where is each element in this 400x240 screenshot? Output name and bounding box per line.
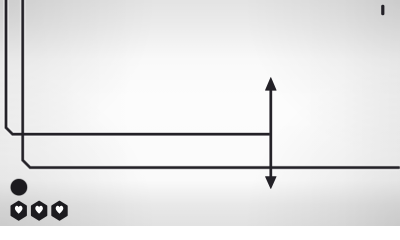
heart 2 bbox=[35, 206, 43, 214]
arrowhead up bbox=[266, 78, 277, 91]
arrow shaft vertical bbox=[270, 86, 272, 179]
tick top right bbox=[381, 5, 384, 15]
hexagon life 2 bbox=[32, 202, 46, 220]
dot button bbox=[11, 179, 27, 195]
hexagon life 1 bbox=[12, 202, 26, 220]
hexagon life 3 bbox=[52, 202, 66, 220]
wire left line B with chamfer into horizontal line 2 bbox=[23, 0, 400, 168]
arrowhead down bbox=[266, 177, 277, 189]
heart 3 bbox=[56, 206, 64, 214]
heart 1 bbox=[15, 206, 23, 214]
wire left line A with chamfer into horizontal line 1 bbox=[6, 0, 270, 134]
wire white halo bbox=[6, 0, 399, 180]
wire soft underlay bbox=[6, 0, 399, 179]
